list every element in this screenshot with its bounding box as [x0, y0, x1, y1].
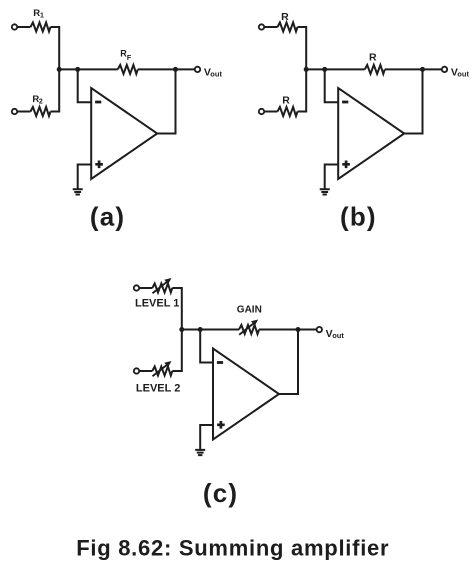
svg-text:GAIN: GAIN: [237, 304, 262, 315]
svg-text:out: out: [457, 70, 469, 79]
svg-text:out: out: [210, 70, 222, 79]
svg-text:LEVEL 1: LEVEL 1: [135, 297, 179, 309]
svg-text:LEVEL 2: LEVEL 2: [136, 382, 180, 394]
svg-text:(a): (a): [90, 201, 125, 231]
svg-text:R: R: [281, 11, 289, 23]
svg-text:1: 1: [40, 13, 44, 20]
svg-text:R: R: [369, 52, 377, 64]
svg-text:Fig 8.62: Summing amplifier: Fig 8.62: Summing amplifier: [76, 535, 389, 560]
svg-text:out: out: [332, 331, 344, 340]
svg-text:2: 2: [39, 99, 43, 106]
svg-text:(c): (c): [203, 478, 238, 508]
svg-text:F: F: [127, 55, 132, 62]
svg-text:R: R: [282, 94, 290, 106]
svg-text:(b): (b): [340, 201, 377, 231]
